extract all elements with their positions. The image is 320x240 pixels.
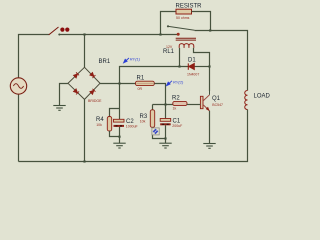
wire: coil right leg to collector riser [194,48,210,67]
svg-text:R1: R1 [137,75,145,81]
ground: bridge minus [53,106,65,111]
svg-text:1N4007: 1N4007 [187,72,199,76]
capacitor C1 top plate [160,119,171,122]
svg-text:RY(2): RY(2) [173,79,184,84]
wire: collector stub [209,91,211,95]
resistor R3 body [150,110,154,128]
wire: bridge bottom return to bus [84,99,86,161]
junction: bottom bus / bridge return [83,160,85,162]
junction: riser to RESISTR [159,33,161,35]
ground: filter [113,143,125,148]
capacitor C2 bottom plate [114,125,125,127]
wire: R2 to Q1 base [187,104,200,106]
wire: relay feed from DC+ node up and right to D1 [120,67,189,84]
transistor Q1 [200,95,209,111]
junction: coil left leg [178,65,180,67]
wire: coil left leg down to D1 cathode node [179,48,181,67]
wire: left rail bottom [18,94,20,162]
svg-text:50 ohms: 50 ohms [176,16,190,20]
bridge diode bottom-left [73,89,79,95]
wire: riser to top resistor [161,12,177,35]
svg-text:D1: D1 [188,58,196,64]
relay contact fixed pin red dot [177,33,180,36]
resistor R1 body [136,81,155,85]
voltage probe marker [152,128,159,135]
svg-text:BC547: BC547 [212,103,223,107]
wire: collector riser to Q1 [209,67,211,92]
svg-text:0R: 0R [138,87,143,91]
junction: C1/R3 ground node [164,137,166,139]
switch state dot 2 [65,28,69,32]
wire: from RESISTR to right riser [192,12,211,31]
junction: base node [164,103,166,105]
wire: bridge + output to R1 [100,83,136,85]
wire: top wire from switch to relay contact pin [59,34,178,36]
wire: left rail top and top wire to switch [19,35,50,79]
resistor R2 body [173,101,187,105]
junction: R4/C2 bottom [118,136,120,138]
junction: DC+ node [118,82,120,84]
switch SW blade [49,27,59,35]
wire: emitter to ground [209,111,211,143]
bridge diode top-left [73,72,79,78]
resistor RESISTR body [176,9,192,14]
wire: R1 out down to base node [154,84,165,105]
svg-text:200uF: 200uF [172,124,182,128]
junction: bridge top feed [83,33,85,35]
inductor LOAD coil [245,90,248,109]
wire: relay contact to right rail [195,31,248,91]
diode D1 [188,63,194,69]
wire: C2 bottom to ground [119,127,121,143]
ground: emitter [203,144,215,149]
wire: bridge left to ground [60,84,69,106]
capacitor C1 bottom plate [160,123,171,125]
bridge diode bottom-right [90,89,96,95]
resistor R4 body [107,117,111,132]
relay contact pivot dot [167,25,169,27]
relay RL1 core bars [176,37,196,39]
wire: R4 bottom to C2 ground join [110,131,120,137]
wire: R4 branch from node [110,109,120,117]
svg-text:LOAD: LOAD [254,93,271,99]
svg-text:R2: R2 [172,96,180,102]
junction: D1 anode node [208,65,210,67]
switch right terminal dot [58,34,60,36]
wire: C1 top [165,105,167,119]
relay RL1 coil [179,44,194,48]
svg-text:RESISTR: RESISTR [176,3,203,9]
wire: C1 bottom to ground join [165,125,167,143]
svg-text:Q1: Q1 [212,96,221,102]
svg-text:10k: 10k [96,123,102,127]
relay contact blade [168,26,195,30]
svg-text:1000uF: 1000uF [126,124,138,128]
svg-text:BRIDGE: BRIDGE [88,99,102,103]
svg-text:BR1: BR1 [99,59,111,65]
bridge BR1 diamond [68,67,100,99]
wire: filter node vertical (C2 branch) [119,84,121,120]
wire: D1 anode to collector riser [195,66,210,68]
capacitor C2 top plate [114,119,125,122]
wire: bridge top vertical [84,35,86,68]
wire: right rail bottom [19,110,248,162]
wire: R3 stub [152,105,154,110]
blue probe RY(2) arrow [167,81,172,86]
wire: R3 bottom [153,127,166,138]
ground: C1/R3 [159,143,171,148]
svg-text:10k: 10k [140,119,146,123]
svg-text:1k: 1k [173,106,177,110]
bridge diode top-right [90,72,96,78]
wire: base node horizontal [153,104,174,106]
svg-text:RL1: RL1 [163,49,175,55]
junction: relay contact right [209,29,211,31]
blue probe RY(1) arrow [124,58,129,63]
AC source V1 [10,78,26,94]
svg-text:RY(1): RY(1) [130,56,141,61]
switch state dot 1 [60,28,64,32]
